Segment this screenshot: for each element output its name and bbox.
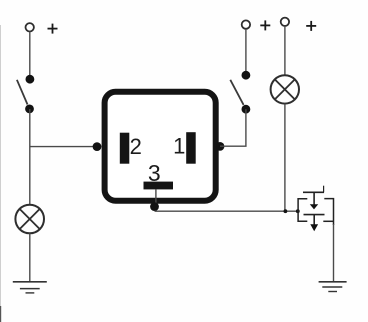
- plus label T3: [306, 21, 316, 31]
- wire S1 down to lamp L1: [29, 109, 31, 205]
- flasher unit U1 (relay box): [105, 92, 216, 201]
- wire S2 to pin 1 of U1: [220, 109, 246, 146]
- terminal T3 (+ supply, right): [281, 18, 289, 26]
- pin 3 contact bar: [144, 182, 174, 190]
- svg-text:2: 2: [130, 134, 142, 159]
- terminal T1 (+ supply, left): [26, 23, 34, 31]
- svg-text:3: 3: [148, 160, 161, 186]
- plus label T1: [48, 24, 58, 34]
- ground GND2: [319, 282, 347, 292]
- pin 1 contact bar: [186, 132, 196, 164]
- wire Q1 to ground: [333, 224, 335, 282]
- junction dot lamp wire / gate wire: [284, 209, 288, 213]
- wire T2 to S2: [245, 29, 247, 71]
- junction dot pin 1 (right side of box): [216, 142, 225, 151]
- junction dot pin 3: [150, 202, 159, 211]
- terminal T2 (+ supply, middle): [242, 20, 250, 28]
- pin 2 contact bar: [120, 133, 130, 164]
- ground GND1: [13, 282, 47, 293]
- svg-text:1: 1: [173, 134, 185, 159]
- junction dot at Q1 gate: [296, 209, 300, 213]
- wire T3 to lamp L2: [284, 26, 286, 75]
- wire T1 to S1: [29, 32, 31, 76]
- lamp L2 (right indicator lamp): [271, 75, 299, 103]
- wire lamp L1 to ground: [29, 233, 31, 281]
- transistor Q1 (output device symbol): [298, 186, 333, 232]
- wire branch to pin 2 of U1: [30, 146, 97, 148]
- lamp L1 (left indicator lamp): [15, 205, 44, 234]
- switch S2 (middle): [230, 71, 250, 114]
- pin 3 lead: [155, 189, 157, 205]
- wire lamp L2 down to gate node: [284, 104, 286, 212]
- wire pin 3 to transistor Q1 gate: [155, 210, 298, 212]
- switch S1 (left): [17, 75, 34, 114]
- junction dot at pin 2 lead: [93, 142, 102, 151]
- plus label T2: [260, 20, 270, 30]
